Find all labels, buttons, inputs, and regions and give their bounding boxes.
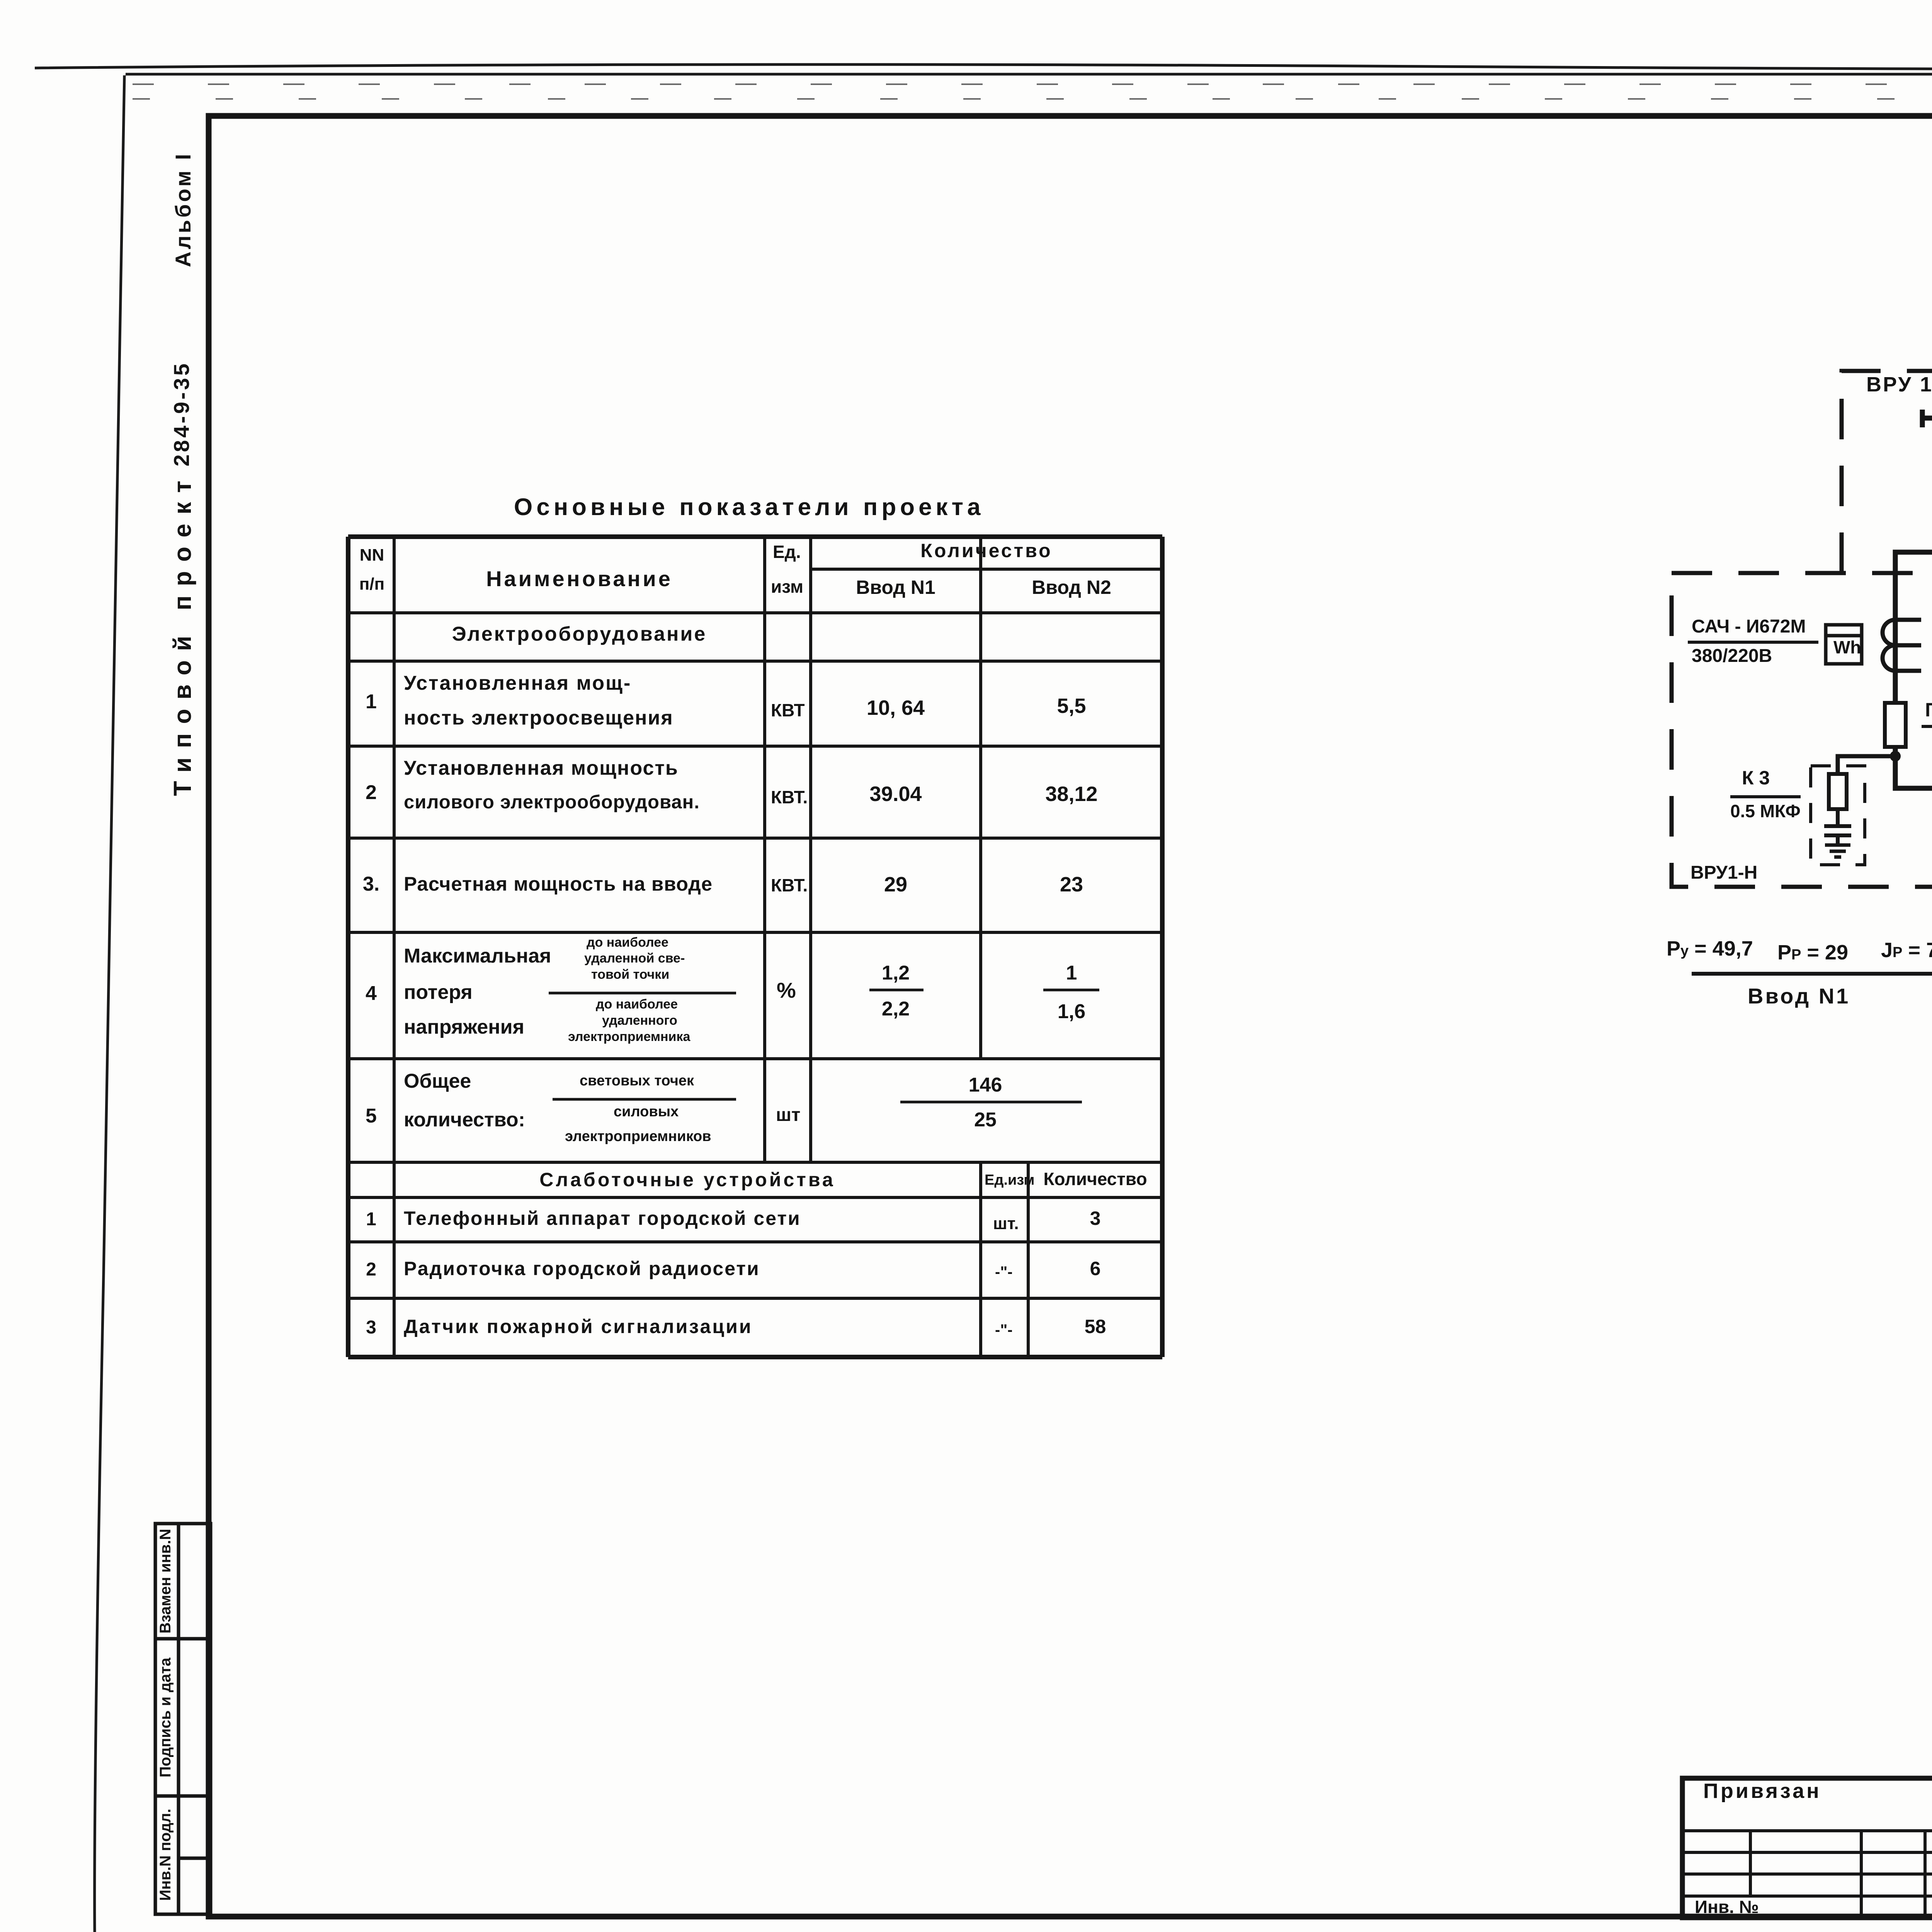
schematic labels — [1866, 374, 1932, 395]
capacitor unit K3 left dashed box — [1811, 766, 1865, 865]
row 5 — [348, 1106, 394, 1126]
label underlines schematic — [1688, 641, 1932, 797]
wire capacitor branch 1 — [1838, 756, 1895, 774]
table title — [514, 495, 984, 519]
meter Wh1 — [1826, 625, 1862, 664]
low-current sub-table — [394, 1170, 981, 1189]
row 3 — [348, 874, 394, 894]
dashed enclosure BPY1-H — [1672, 573, 1932, 887]
busbar 1 — [1922, 410, 1932, 427]
dashed enclosure BPY1-47 — [1842, 371, 1932, 573]
bottom-left attribute boxes — [155, 1524, 211, 1914]
main indicators table — [348, 537, 1162, 1357]
underline rule Ввод N1 — [1692, 972, 1932, 976]
row 4 — [348, 983, 394, 1003]
current transformer TA1 — [1883, 620, 1921, 671]
title block rules — [1682, 1664, 1932, 1918]
ground left — [1825, 845, 1850, 857]
fuse F1 — [1885, 703, 1906, 747]
table header texts — [350, 547, 394, 564]
row 1 — [348, 692, 394, 712]
node junction 1 — [1890, 751, 1901, 762]
left margin rotated captions — [172, 151, 194, 267]
row 2 — [348, 782, 394, 803]
capacitor K3 left — [1824, 774, 1851, 845]
wire feeder 1 — [1895, 418, 1932, 788]
